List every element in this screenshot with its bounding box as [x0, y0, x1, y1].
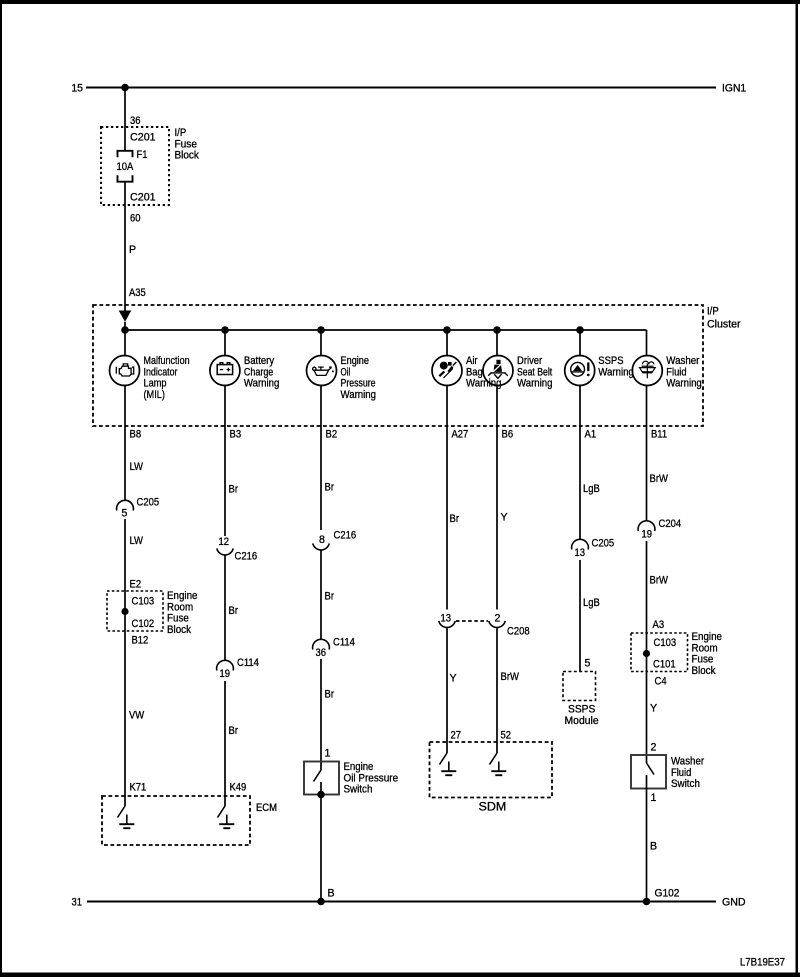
svg-text:31: 31: [72, 897, 83, 909]
svg-text:Br: Br: [229, 605, 239, 617]
svg-text:Engine: Engine: [167, 590, 198, 602]
svg-text:LgB: LgB: [583, 483, 600, 495]
svg-text:Warning: Warning: [466, 378, 502, 390]
svg-text:Washer: Washer: [666, 355, 700, 367]
svg-text:13: 13: [575, 547, 586, 559]
svg-text:19: 19: [642, 529, 653, 541]
svg-text:Oil Pressure: Oil Pressure: [344, 772, 399, 784]
svg-text:Lamp: Lamp: [144, 378, 167, 390]
svg-text:Warning: Warning: [598, 366, 634, 378]
svg-text:L7B19E37: L7B19E37: [740, 957, 785, 969]
svg-text:Y: Y: [501, 512, 508, 524]
svg-text:Room: Room: [692, 642, 718, 654]
svg-text:SDM: SDM: [479, 800, 507, 814]
svg-text:27: 27: [451, 730, 462, 742]
svg-text:Br: Br: [229, 484, 239, 496]
svg-text:12: 12: [219, 536, 230, 548]
svg-text:Oil: Oil: [341, 366, 351, 378]
svg-text:Module: Module: [565, 715, 599, 727]
svg-text:C201: C201: [130, 192, 156, 204]
svg-text:Br: Br: [325, 591, 335, 603]
svg-text:C204: C204: [659, 518, 682, 530]
svg-text:Engine: Engine: [344, 761, 374, 773]
svg-text:B: B: [650, 841, 657, 853]
svg-text:Pressure: Pressure: [341, 378, 376, 390]
svg-text:5: 5: [122, 508, 128, 520]
svg-text:GND: GND: [722, 897, 746, 909]
svg-text:52: 52: [501, 730, 512, 742]
svg-text:Warning: Warning: [341, 389, 377, 401]
svg-text:Warning: Warning: [666, 378, 702, 390]
svg-text:36: 36: [316, 647, 327, 659]
svg-text:Br: Br: [229, 725, 239, 737]
svg-text:SSPS: SSPS: [568, 704, 595, 716]
svg-text:C102: C102: [132, 618, 155, 630]
svg-text:Switch: Switch: [344, 784, 373, 796]
svg-text:Warning: Warning: [517, 378, 553, 390]
svg-text:Driver: Driver: [517, 355, 543, 367]
svg-text:C216: C216: [235, 551, 258, 563]
svg-text:Engine: Engine: [341, 355, 370, 367]
svg-text:(MIL): (MIL): [144, 389, 165, 401]
svg-text:Warning: Warning: [244, 378, 280, 390]
svg-text:K71: K71: [130, 782, 147, 794]
svg-text:A27: A27: [452, 429, 469, 441]
svg-text:Switch: Switch: [671, 778, 700, 790]
svg-text:I/P: I/P: [707, 306, 719, 318]
svg-text:B12: B12: [132, 635, 149, 647]
svg-text:Battery: Battery: [244, 355, 275, 367]
svg-text:19: 19: [220, 668, 231, 680]
svg-text:C101: C101: [653, 659, 676, 671]
svg-text:Block: Block: [175, 150, 200, 162]
svg-text:36: 36: [130, 115, 141, 127]
svg-text:B11: B11: [651, 429, 667, 441]
svg-text:VW: VW: [129, 710, 144, 722]
svg-text:BrW: BrW: [650, 473, 668, 485]
svg-text:ECM: ECM: [256, 802, 277, 814]
svg-text:IGN1: IGN1: [722, 83, 746, 95]
svg-text:15: 15: [71, 83, 83, 95]
svg-text:Br: Br: [450, 513, 460, 525]
svg-text:C216: C216: [334, 530, 357, 542]
svg-text:1: 1: [651, 792, 657, 804]
svg-text:A3: A3: [653, 619, 665, 631]
svg-text:1: 1: [325, 748, 331, 760]
svg-text:C114: C114: [333, 637, 355, 649]
svg-text:C208: C208: [507, 626, 530, 638]
svg-text:BrW: BrW: [650, 575, 668, 587]
svg-text:A35: A35: [129, 287, 146, 299]
svg-text:C201: C201: [130, 132, 156, 144]
svg-text:B8: B8: [130, 429, 142, 441]
svg-text:LW: LW: [130, 461, 144, 473]
svg-text:G102: G102: [655, 888, 680, 900]
svg-text:C4: C4: [655, 676, 667, 688]
svg-text:LW: LW: [130, 535, 144, 547]
svg-text:B6: B6: [502, 429, 514, 441]
svg-text:Block: Block: [692, 665, 717, 677]
svg-text:2: 2: [651, 742, 657, 754]
svg-text:F1: F1: [137, 149, 148, 161]
svg-text:Y: Y: [650, 703, 657, 715]
svg-text:Bag: Bag: [466, 366, 483, 378]
svg-text:Seat Belt: Seat Belt: [517, 366, 552, 378]
svg-text:Engine: Engine: [692, 631, 723, 643]
svg-text:B2: B2: [326, 429, 338, 441]
svg-text:Air: Air: [466, 355, 478, 367]
svg-text:LgB: LgB: [583, 597, 600, 609]
svg-text:60: 60: [130, 213, 141, 225]
svg-text:C114: C114: [237, 657, 259, 669]
svg-text:Cluster: Cluster: [707, 318, 741, 330]
svg-text:10A: 10A: [117, 161, 135, 173]
svg-text:E2: E2: [130, 579, 142, 591]
svg-text:Block: Block: [167, 624, 192, 636]
svg-text:C103: C103: [132, 596, 155, 608]
svg-text:P: P: [129, 244, 136, 256]
svg-text:Malfunction: Malfunction: [144, 355, 190, 367]
svg-text:BrW: BrW: [501, 671, 519, 683]
svg-text:Room: Room: [167, 601, 193, 613]
svg-text:Fluid: Fluid: [666, 366, 686, 378]
svg-text:B3: B3: [230, 429, 242, 441]
svg-text:Washer: Washer: [671, 756, 705, 768]
svg-text:2: 2: [495, 613, 501, 625]
svg-text:B: B: [328, 888, 335, 900]
svg-text:Fuse: Fuse: [692, 654, 714, 666]
svg-text:Charge: Charge: [244, 366, 273, 378]
svg-text:8: 8: [319, 534, 325, 546]
svg-text:Indicator: Indicator: [144, 366, 178, 378]
svg-text:C205: C205: [137, 497, 160, 509]
svg-text:5: 5: [585, 658, 591, 670]
svg-text:Fuse: Fuse: [175, 138, 198, 150]
svg-text:Br: Br: [325, 482, 335, 494]
svg-text:13: 13: [441, 613, 452, 625]
svg-text:Fuse: Fuse: [167, 613, 189, 625]
svg-text:I/P: I/P: [175, 127, 187, 139]
svg-text:A1: A1: [585, 429, 597, 441]
svg-text:C205: C205: [592, 538, 615, 550]
svg-text:SSPS: SSPS: [598, 355, 623, 367]
svg-text:Br: Br: [325, 689, 335, 701]
svg-text:Y: Y: [450, 673, 457, 685]
svg-text:K49: K49: [230, 782, 247, 794]
svg-text:C103: C103: [654, 637, 677, 649]
svg-text:Fluid: Fluid: [671, 767, 691, 779]
